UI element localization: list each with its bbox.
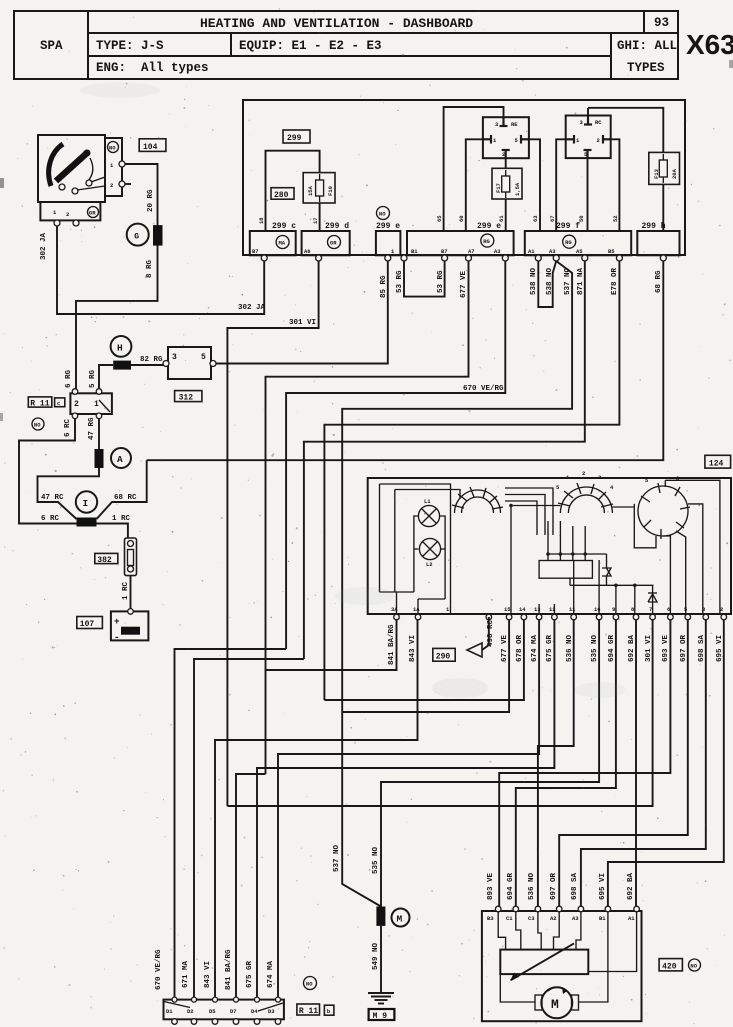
svg-text:675 GR: 675 GR [546,634,554,662]
svg-text:302 JA: 302 JA [238,304,266,312]
svg-text:693 VE: 693 VE [662,634,670,662]
svg-text:6 RC: 6 RC [41,515,60,523]
svg-text:D2: D2 [187,1008,194,1015]
svg-text:D5: D5 [209,1008,216,1015]
svg-text:5 RG: 5 RG [89,369,97,388]
svg-text:1,5A: 1,5A [514,182,521,196]
svg-text:B5: B5 [608,248,615,255]
svg-text:-: - [114,632,120,643]
svg-text:697 OR: 697 OR [550,872,558,900]
svg-text:5: 5 [556,484,560,491]
svg-text:13: 13 [534,606,541,613]
svg-text:B1: B1 [411,248,418,255]
svg-text:3: 3 [702,606,706,613]
svg-text:299 e: 299 e [376,222,400,231]
svg-text:675 GR: 675 GR [246,960,254,988]
svg-text:GR: GR [89,210,96,217]
svg-text:537 NO: 537 NO [564,267,572,295]
svg-text:63: 63 [532,215,539,222]
svg-text:3: 3 [172,353,177,362]
svg-text:47 RC: 47 RC [41,494,64,502]
svg-text:C1: C1 [506,915,513,922]
svg-text:EQUIP: E1 - E2 - E3: EQUIP: E1 - E2 - E3 [239,39,382,53]
svg-text:674 MA: 674 MA [531,634,539,662]
svg-text:HEATING AND VENTILATION - DASH: HEATING AND VENTILATION - DASHBOARD [200,16,473,31]
svg-text:677 VE: 677 VE [501,634,509,662]
svg-text:G: G [134,233,139,242]
svg-text:694 GR: 694 GR [507,872,515,900]
svg-text:L2: L2 [426,561,433,568]
svg-text:M: M [551,997,559,1012]
svg-text:15A: 15A [307,185,314,196]
svg-text:B7: B7 [441,248,448,255]
svg-text:D3: D3 [268,1008,275,1015]
svg-text:1: 1 [391,248,395,255]
svg-text:2: 2 [74,400,79,409]
svg-text:c: c [57,400,60,407]
svg-text:893 VE: 893 VE [487,872,495,900]
svg-text:MA: MA [279,240,286,247]
svg-text:549 NO: 549 NO [372,942,380,970]
svg-text:695 VI: 695 VI [716,635,724,662]
svg-text:NO: NO [306,981,313,988]
svg-text:694 GR: 694 GR [608,634,616,662]
svg-text:420: 420 [662,963,677,972]
svg-text:RC: RC [595,119,602,126]
svg-text:6 RC: 6 RC [64,418,72,437]
svg-text:312: 312 [179,394,194,403]
svg-text:R 11: R 11 [299,1007,318,1016]
svg-text:11: 11 [569,606,576,613]
svg-text:RG: RG [565,239,572,246]
svg-text:L1: L1 [424,498,431,505]
svg-text:301 VI: 301 VI [289,319,316,327]
svg-text:C3: C3 [528,915,535,922]
svg-text:8 RG: 8 RG [146,259,154,278]
svg-text:F17: F17 [495,183,502,193]
svg-text:b: b [327,1008,331,1015]
svg-text:65: 65 [436,215,443,222]
svg-text:M 9: M 9 [373,1012,388,1021]
svg-text:+: + [114,616,120,627]
svg-text:280: 280 [274,191,289,200]
svg-text:D1: D1 [166,1008,173,1015]
svg-text:697 OR: 697 OR [680,634,688,662]
svg-text:678 OR: 678 OR [516,634,524,662]
svg-text:TYPE: J-S: TYPE: J-S [96,39,164,53]
svg-text:536 NO: 536 NO [528,872,536,900]
svg-text:843 VI: 843 VI [409,635,417,662]
svg-text:TYPES: TYPES [627,61,665,75]
svg-text:A3: A3 [494,248,501,255]
svg-text:1: 1 [53,209,57,216]
svg-text:R 11: R 11 [30,399,49,408]
svg-text:A: A [117,454,123,465]
svg-text:F10: F10 [327,186,334,196]
svg-text:2: 2 [582,470,585,477]
svg-text:93: 93 [654,16,669,30]
svg-text:538 NO: 538 NO [530,267,538,295]
svg-text:E78 OR: E78 OR [611,267,619,295]
svg-text:299 e: 299 e [477,222,501,231]
svg-text:843 VI: 843 VI [204,961,212,988]
svg-text:670 VE/RG: 670 VE/RG [463,385,504,393]
svg-text:677 VE: 677 VE [460,270,468,298]
svg-text:299 f: 299 f [556,222,580,231]
svg-text:B1: B1 [599,915,606,922]
svg-text:6: 6 [667,606,670,613]
svg-text:1 RC: 1 RC [122,581,130,600]
svg-text:NO: NO [690,963,697,970]
svg-text:14: 14 [519,606,526,613]
svg-text:20A: 20A [671,168,678,179]
svg-text:2: 2 [597,137,600,144]
svg-text:536 NO: 536 NO [566,634,574,662]
svg-text:4: 4 [610,484,614,491]
svg-text:A1: A1 [628,915,635,922]
svg-text:7: 7 [649,606,652,613]
svg-text:15: 15 [504,606,511,613]
svg-text:68 RG: 68 RG [655,270,663,293]
svg-text:52: 52 [612,215,619,222]
svg-text:535 NO: 535 NO [591,634,599,662]
svg-text:A6: A6 [304,248,311,255]
svg-text:104: 104 [143,143,158,152]
svg-text:5: 5 [684,606,688,613]
svg-text:85 RG: 85 RG [380,275,388,298]
svg-text:1 RC: 1 RC [112,515,131,523]
svg-text:9: 9 [612,606,615,613]
svg-text:299: 299 [287,134,302,143]
svg-text:692 BA: 692 BA [627,872,635,900]
svg-text:NO: NO [379,211,386,218]
svg-text:68 RC: 68 RC [114,494,137,502]
svg-text:107: 107 [80,620,95,629]
svg-text:53 RG: 53 RG [437,270,445,293]
svg-text:537 NO: 537 NO [333,844,341,872]
svg-text:535 NO: 535 NO [372,846,380,874]
svg-text:60: 60 [458,215,465,222]
svg-text:692 BA: 692 BA [628,634,636,662]
svg-text:1: 1 [493,137,497,144]
svg-text:2: 2 [720,606,723,613]
svg-text:ENG: All types: ENG: All types [96,61,209,75]
svg-text:F13: F13 [653,168,660,179]
svg-text:A5: A5 [576,248,583,255]
svg-text:50: 50 [578,215,585,222]
svg-text:301 VI: 301 VI [645,635,653,662]
svg-text:670 VE/RG: 670 VE/RG [155,949,163,990]
svg-text:X63: X63 [686,29,733,60]
svg-text:A2: A2 [550,915,557,922]
svg-text:871 NA: 871 NA [577,267,585,295]
svg-text:290: 290 [436,652,451,661]
svg-text:D4: D4 [251,1008,258,1015]
svg-text:D7: D7 [230,1008,237,1015]
svg-text:A1: A1 [528,248,535,255]
svg-text:GHI: ALL: GHI: ALL [617,39,677,53]
svg-text:695 VI: 695 VI [599,873,607,900]
svg-text:RG: RG [483,238,490,245]
svg-text:1: 1 [110,162,114,169]
svg-text:82 RG: 82 RG [140,356,163,364]
svg-text:RE: RE [511,121,518,128]
svg-text:3: 3 [495,121,499,128]
svg-text:61: 61 [498,215,505,222]
svg-text:H: H [117,342,123,353]
svg-text:47 RG: 47 RG [88,417,96,440]
svg-text:18: 18 [258,217,265,224]
svg-text:3A: 3A [391,606,398,613]
svg-text:6 RG: 6 RG [65,369,73,388]
svg-text:124: 124 [709,459,724,468]
svg-text:5: 5 [515,137,519,144]
svg-text:1: 1 [94,400,99,409]
svg-text:698 SA: 698 SA [571,872,579,900]
svg-text:20 RG: 20 RG [147,189,155,212]
svg-text:302 JA: 302 JA [40,232,48,260]
svg-text:17: 17 [312,217,319,224]
svg-text:382: 382 [97,556,112,565]
svg-text:671 MA: 671 MA [182,960,190,988]
svg-text:NO: NO [109,145,116,152]
svg-text:A7: A7 [468,248,475,255]
svg-text:5: 5 [201,353,206,362]
svg-text:NO: NO [34,422,41,429]
svg-text:2: 2 [502,151,505,158]
svg-text:M: M [397,914,403,925]
svg-text:698 SA: 698 SA [698,634,706,662]
svg-text:841 BA/RG: 841 BA/RG [388,624,396,665]
svg-text:53 RG: 53 RG [396,270,404,293]
svg-text:B7: B7 [252,248,259,255]
svg-text:A3: A3 [549,248,556,255]
svg-text:1A: 1A [413,606,420,613]
svg-text:841 BA/RG: 841 BA/RG [225,949,233,990]
svg-text:1: 1 [446,606,450,613]
svg-text:2: 2 [110,182,113,189]
svg-text:A3: A3 [572,915,579,922]
svg-text:2: 2 [66,211,69,218]
svg-text:299 h: 299 h [642,222,666,231]
svg-text:1: 1 [576,137,580,144]
svg-text:3: 3 [580,119,584,126]
svg-text:B3: B3 [487,915,494,922]
svg-text:299 d: 299 d [325,222,349,231]
svg-text:I: I [83,498,89,509]
svg-text:GR: GR [330,240,337,247]
svg-text:SPA: SPA [40,39,63,53]
svg-text:67: 67 [549,215,556,222]
svg-text:538 NO: 538 NO [546,267,554,295]
